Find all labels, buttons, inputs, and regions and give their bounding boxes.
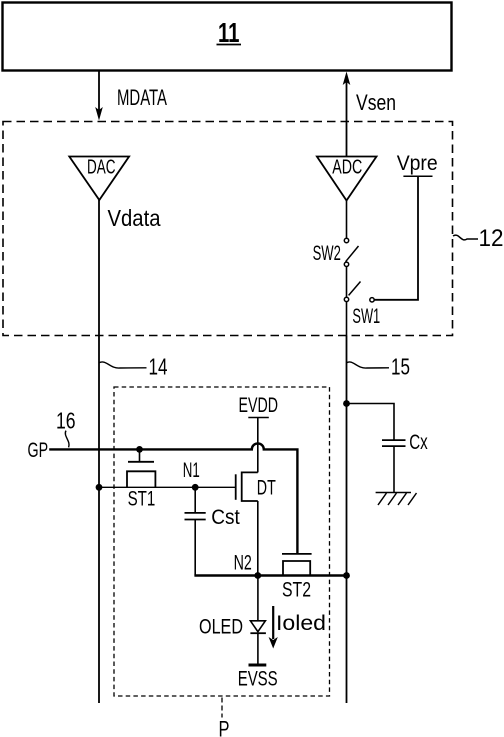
terminal EVSS [249, 664, 267, 667]
wire node N1 [99, 486, 236, 488]
junction line14 to ST1 source [96, 484, 103, 491]
svg-text:Cx: Cx [409, 431, 428, 454]
svg-text:16: 16 [56, 408, 76, 434]
transistor ST2 [282, 553, 312, 555]
terminal EVDD [248, 417, 268, 419]
wire N2 to OLED anode [257, 576, 259, 621]
wire ADC apex to SW2 [346, 201, 348, 239]
svg-text:ADC: ADC [332, 157, 362, 179]
DAC converter symbol [69, 157, 129, 201]
svg-text:ST2: ST2 [282, 579, 311, 602]
junction line15 to Cx [343, 400, 350, 407]
terminal Vpre [403, 175, 432, 177]
svg-text:OLED: OLED [199, 615, 243, 639]
controller block 11 [3, 3, 452, 71]
svg-text:12: 12 [479, 225, 504, 252]
pixel dashed box P [114, 387, 330, 696]
svg-text:Ioled: Ioled [276, 611, 326, 635]
svg-text:N1: N1 [183, 458, 200, 482]
current arrow Ioled [272, 606, 274, 639]
wire MDATA arrow [98, 71, 100, 110]
junction N2 to line15 [343, 572, 350, 579]
svg-text:MDATA: MDATA [117, 85, 167, 110]
leader line 12 [453, 235, 478, 240]
svg-text:15: 15 [391, 354, 410, 380]
capacitor Cst [194, 487, 196, 513]
svg-text:Cst: Cst [211, 506, 240, 529]
svg-text:N2: N2 [234, 552, 252, 575]
svg-text:Vsen: Vsen [356, 90, 396, 115]
switch SW1 [344, 297, 348, 301]
wire DT source to N2 [257, 501, 259, 576]
transistor DT [235, 474, 237, 500]
svg-text:P: P [219, 717, 230, 737]
svg-text:14: 14 [149, 354, 168, 380]
junction N2 DT source / OLED [254, 572, 261, 579]
svg-text:DAC: DAC [87, 157, 116, 179]
wire SW1 down to box edge [346, 302, 348, 336]
leader line 15 [347, 362, 390, 368]
wire line15 to Cx [347, 404, 395, 441]
svg-text:EVSS: EVSS [238, 667, 278, 691]
wire GP scan line with hop over EVDD [49, 443, 297, 554]
data driver block 12 dashed box [3, 122, 453, 336]
switch SW2 [344, 238, 348, 242]
svg-text:EVDD: EVDD [239, 393, 279, 417]
junction GP to ST1 gate [136, 446, 143, 453]
wire Vsen arrow [346, 82, 348, 156]
leader line 16 [65, 431, 69, 448]
capacitor Cx [382, 439, 406, 441]
svg-text:Vdata: Vdata [108, 205, 161, 231]
node N1 junction [192, 484, 199, 491]
sense line 15 [346, 336, 348, 704]
wire SW2 to SW1 [346, 267, 348, 298]
leader line P [221, 698, 223, 718]
wire SW1 to Vpre [374, 176, 418, 299]
svg-text:SW2: SW2 [313, 242, 341, 265]
svg-text:GP: GP [28, 439, 49, 462]
svg-text:DT: DT [257, 477, 276, 500]
svg-text:Vpre: Vpre [397, 151, 438, 175]
wire node N2 [194, 574, 346, 576]
data line 14 [98, 200, 100, 703]
ground symbol [376, 492, 411, 494]
svg-text:11: 11 [218, 17, 240, 48]
diode OLED [250, 621, 265, 632]
svg-text:ST1: ST1 [128, 488, 156, 511]
svg-text:SW1: SW1 [352, 305, 380, 328]
ADC converter symbol [317, 157, 377, 201]
wire EVDD to DT drain [257, 418, 259, 473]
leader line 14 [99, 362, 147, 368]
transistor ST1 [139, 449, 141, 461]
